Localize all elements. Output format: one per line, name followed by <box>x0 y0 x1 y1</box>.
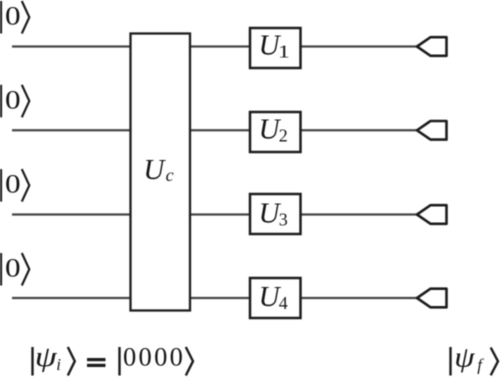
svg-text:c: c <box>166 165 174 185</box>
svg-text:0: 0 <box>5 1 21 31</box>
svg-text:0: 0 <box>5 253 21 283</box>
svg-text:3: 3 <box>279 210 288 230</box>
svg-text:U: U <box>143 154 166 186</box>
svg-text:0000: 0000 <box>123 342 185 372</box>
svg-text:ψ: ψ <box>454 341 475 373</box>
svg-text:4: 4 <box>279 293 288 313</box>
svg-text:0: 0 <box>5 169 21 199</box>
svg-text:1: 1 <box>278 42 290 62</box>
svg-text:i: i <box>56 355 61 374</box>
svg-text:2: 2 <box>279 125 288 145</box>
svg-text:ψ: ψ <box>35 341 58 373</box>
svg-text:0: 0 <box>5 84 21 114</box>
